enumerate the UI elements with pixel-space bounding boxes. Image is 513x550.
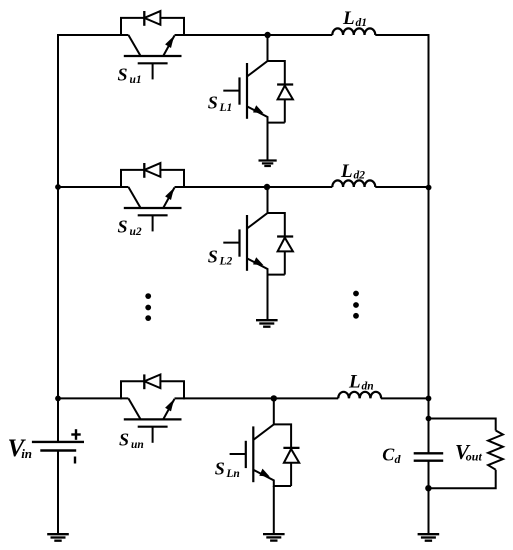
svg-text:un: un [131, 439, 144, 451]
svg-text:L: L [340, 161, 353, 182]
svg-text:in: in [21, 446, 32, 461]
svg-text:S: S [215, 459, 225, 479]
svg-text:S: S [208, 246, 218, 266]
svg-text:L2: L2 [219, 256, 233, 268]
svg-text:Ln: Ln [225, 468, 239, 480]
svg-text:d1: d1 [356, 17, 368, 29]
svg-text:C: C [382, 445, 395, 465]
svg-text:u1: u1 [130, 74, 142, 86]
svg-text:L1: L1 [219, 102, 233, 114]
svg-text:out: out [466, 449, 483, 463]
svg-text:S: S [208, 93, 218, 113]
svg-text:d: d [395, 452, 402, 466]
svg-text:dn: dn [362, 380, 374, 392]
svg-text:S: S [119, 430, 129, 450]
svg-text:d2: d2 [354, 170, 366, 182]
svg-text:L: L [348, 371, 361, 392]
svg-text:S: S [118, 65, 128, 85]
svg-text:S: S [118, 217, 128, 237]
svg-text:L: L [342, 8, 355, 29]
svg-text:u2: u2 [130, 226, 142, 238]
